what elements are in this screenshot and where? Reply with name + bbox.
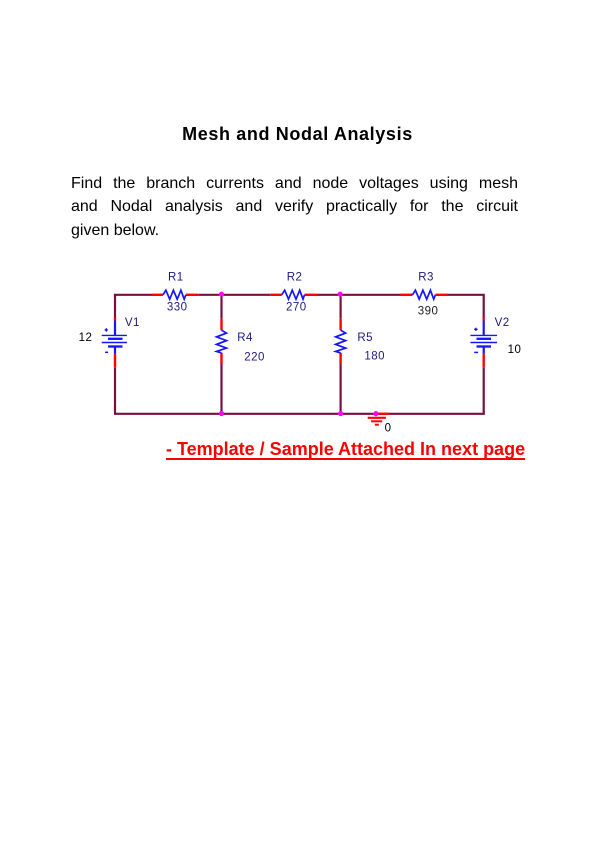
svg-text:R4: R4	[237, 332, 253, 344]
svg-text:220: 220	[244, 352, 265, 364]
svg-text:0: 0	[385, 423, 392, 435]
svg-text:270: 270	[286, 302, 307, 314]
svg-text:R2: R2	[287, 272, 303, 284]
svg-text:R3: R3	[418, 272, 434, 284]
svg-text:10: 10	[508, 344, 522, 356]
svg-text:V1: V1	[125, 317, 140, 329]
svg-text:V2: V2	[495, 317, 510, 329]
svg-text:180: 180	[364, 351, 385, 363]
svg-text:330: 330	[167, 302, 188, 314]
svg-text:12: 12	[79, 332, 93, 344]
svg-text:390: 390	[418, 306, 439, 318]
svg-text:R5: R5	[357, 332, 373, 344]
svg-text:R1: R1	[168, 272, 184, 284]
